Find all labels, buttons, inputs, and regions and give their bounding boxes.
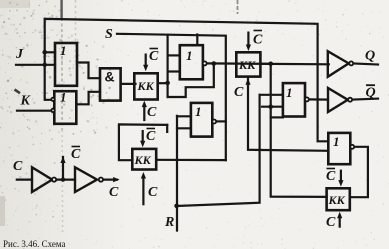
gate D1 (J input gate) (55, 43, 77, 86)
svg-text:1: 1 (60, 43, 67, 58)
arrow KK3 C (339, 217, 341, 226)
svg-text:S: S (105, 27, 113, 42)
svg-text:C: C (253, 33, 263, 48)
node J wire cross (43, 63, 47, 67)
wire R input vertical (176, 116, 178, 231)
arrow KK2 Cbar (247, 33, 249, 46)
head KK3 Cbar down (338, 180, 343, 187)
wire S input (117, 34, 226, 160)
wire tap to gate D4 second input (168, 70, 180, 72)
wire Qbar output (352, 99, 378, 100)
inverter DD1 triangle (32, 167, 52, 192)
wire KK2 output vertical A (271, 64, 327, 197)
svg-text:Q: Q (365, 49, 375, 64)
bubble D7 out (350, 145, 354, 149)
wire KK1 output (158, 82, 168, 84)
wire clock C to slave gate D7 input (248, 79, 328, 151)
svg-text:&: & (105, 69, 115, 85)
bubble inverter Q (349, 61, 353, 65)
svg-text:1: 1 (333, 134, 340, 149)
wire Cbar arrow up (62, 157, 64, 180)
head KK2 C up (245, 78, 250, 85)
head KK-M C up (141, 172, 146, 179)
svg-text:КК: КК (328, 193, 346, 207)
node KK2 out (268, 62, 273, 67)
node rail to J gate (42, 50, 47, 55)
bubble D4 out (203, 61, 207, 65)
wire clock line to KK-M (119, 124, 167, 160)
gate D3 AND (100, 68, 121, 100)
head C output right (113, 177, 120, 182)
svg-text:C: C (148, 185, 158, 200)
wire S tap to D4 top (196, 35, 198, 46)
wire R to D5 upper input (177, 115, 191, 117)
head KK3 C up (337, 212, 342, 219)
wire top feedback rail (45, 19, 328, 141)
svg-text:КК: КК (238, 58, 256, 72)
wire K-gate output to AND (76, 92, 100, 105)
svg-text:1: 1 (60, 90, 67, 105)
gate D7 (slave latch 2) (328, 133, 350, 164)
node KK1 out (165, 81, 170, 86)
switch KK2 (236, 52, 260, 76)
wire D5 output (216, 120, 226, 122)
wire master feedback loop (168, 64, 214, 98)
arrow KK-M Cbar (142, 131, 144, 142)
gate D4 (master latch 1) (180, 45, 203, 79)
svg-text:C: C (149, 49, 159, 64)
svg-text:C: C (109, 185, 119, 200)
svg-text:C: C (326, 215, 336, 230)
head Cbar up between inverters (60, 157, 65, 164)
wire D4 output to KK2 line to Q inverter (207, 62, 329, 65)
bubble inverter DD1 (52, 178, 56, 182)
wire tap to D6 bottom corner (271, 116, 283, 118)
gate D2 (K input gate) (54, 91, 76, 124)
wire R to D5 lower input (177, 127, 191, 129)
output bubbles (51, 61, 354, 181)
switch KK1 (134, 73, 157, 99)
wire left vertical to J gate and K gate (45, 19, 51, 100)
wire R branch to slave (177, 95, 260, 206)
arrowheads (60, 45, 343, 219)
head KK1 C up (142, 101, 147, 108)
wire tap to gate D4 input (168, 54, 180, 56)
svg-text:1: 1 (286, 85, 293, 100)
bubble inverter Qbar (348, 98, 352, 102)
bubble D5 out (212, 120, 216, 124)
wire C output arrow (103, 179, 117, 181)
wire to D6 upper input (260, 94, 283, 96)
wire Q output (353, 64, 378, 65)
bubble K gate in 2 (51, 109, 54, 112)
svg-text:КК: КК (134, 153, 152, 167)
gate D5 (master latch 2) (191, 103, 212, 137)
wire J input (16, 64, 55, 66)
svg-text:КК: КК (137, 79, 155, 93)
wire J-gate top input (45, 51, 55, 53)
head KK-M Cbar down (140, 141, 145, 148)
wire D6 output to Qbar inverter (309, 98, 328, 100)
head KK2 Cbar down (246, 45, 251, 52)
arrow KK-M C (142, 178, 144, 205)
inverter Qbar triangle (328, 88, 348, 112)
node R branch (174, 204, 179, 209)
bubble inverter DD2 (99, 178, 103, 182)
svg-text:C: C (146, 129, 156, 144)
wire to D6 lower input (262, 106, 283, 108)
wire J-gate output to AND (77, 63, 100, 79)
wire KK-M output to S leg (156, 159, 226, 162)
wire clock stub (166, 125, 168, 132)
wire K input (17, 110, 50, 112)
wire KK2 output (260, 63, 270, 65)
wire between inverters (56, 179, 75, 181)
bubble D6 out (305, 97, 309, 101)
inverter DD2 triangle (75, 167, 97, 192)
svg-text:C: C (326, 169, 336, 184)
svg-text:J: J (15, 47, 24, 62)
arrow KK3 Cbar (340, 171, 342, 182)
svg-text:1: 1 (186, 48, 193, 63)
switch KK3 (327, 188, 350, 210)
node C inverter junction (61, 177, 65, 181)
svg-text:C: C (71, 147, 81, 162)
svg-text:Q: Q (366, 85, 376, 100)
wire AND output (121, 83, 136, 85)
svg-text:K: K (20, 94, 32, 109)
svg-text:C: C (13, 159, 23, 174)
head KK1 Cbar down (143, 65, 148, 72)
bubble K gate in 1 (51, 98, 54, 101)
arrow KK1 Cbar (145, 55, 147, 66)
gate D6 (slave latch 1) (283, 83, 305, 116)
faint caption (3, 239, 65, 249)
node D6 input (268, 104, 273, 109)
wire D7 output loop to KK3 (350, 147, 368, 197)
svg-text:C: C (234, 85, 244, 100)
svg-text:Рис. 3.46. Схема: Рис. 3.46. Схема (3, 239, 65, 249)
inverter Q triangle (328, 51, 349, 77)
node D4 out 1 (212, 61, 217, 66)
scan fold band (60, 0, 62, 18)
switch KK-M (master clock switch) (132, 149, 156, 170)
svg-text:1: 1 (195, 104, 202, 119)
svg-text:C: C (147, 105, 157, 120)
arrow KK1 C (143, 106, 145, 120)
inverter DD1 C input wire (17, 179, 32, 181)
wire feedback vertical x167 (167, 35, 169, 97)
